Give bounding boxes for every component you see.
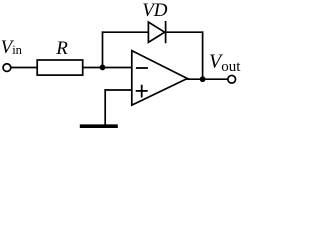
wire non-inverting input [104,89,132,91]
wire op-amp output to Vout terminal [186,78,227,80]
node Vin terminal [3,64,11,72]
ground [80,124,118,128]
svg-text:Vin: Vin [1,37,23,58]
diode VD [148,21,165,43]
resistor R [37,60,82,75]
svg-text:VD: VD [142,0,168,21]
svg-text:R: R [55,38,68,59]
wire input from Vin terminal to resistor [11,67,38,69]
node Vout junction [200,76,206,82]
svg-text:Vout: Vout [209,50,241,74]
op-amp U1 [132,51,188,106]
node Vout terminal [228,75,236,83]
wire ground drop [104,89,106,124]
op-amp plus pin symbol [136,85,148,98]
wire resistor to op-amp inverting input [83,67,133,69]
wire feedback vertical right [202,31,204,80]
node A junction [100,65,106,71]
wire feedback vertical left [102,31,104,68]
wire feedback horizontal top [102,31,204,33]
op-amp minus pin symbol [136,67,148,69]
